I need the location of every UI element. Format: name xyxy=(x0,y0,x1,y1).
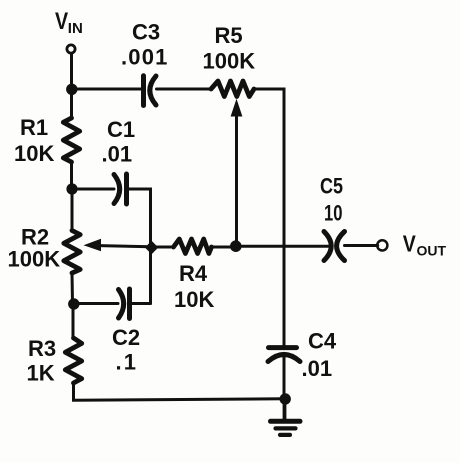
svg-text:10: 10 xyxy=(324,201,343,226)
resistor R5 xyxy=(211,81,254,97)
capacitor C1 xyxy=(114,174,127,204)
svg-text:10K: 10K xyxy=(174,287,214,312)
wire VIN vertical to R1 xyxy=(70,54,73,119)
wire junction to R4 xyxy=(151,246,174,249)
arrowhead R2 wiper xyxy=(84,239,102,251)
resistor R2 xyxy=(64,231,80,274)
wire R5 wiper vertical xyxy=(235,112,238,247)
capacitor C2 xyxy=(119,289,130,319)
svg-text:.1: .1 xyxy=(116,350,139,375)
wire R2 bottom lead xyxy=(71,273,75,304)
wire C4 bottom to ground junction xyxy=(283,355,286,398)
svg-text:OUT: OUT xyxy=(417,243,447,259)
capacitor C5 xyxy=(324,232,345,261)
svg-text:.001: .001 xyxy=(121,45,169,70)
svg-text:.01: .01 xyxy=(302,356,333,381)
wire R2 wiper arrow line xyxy=(99,246,151,247)
wire junction to C5 xyxy=(236,245,329,248)
wire junction to C1 xyxy=(72,188,115,191)
wire R2 top lead xyxy=(71,189,74,231)
wire R3 top lead xyxy=(72,304,75,338)
svg-text:R1: R1 xyxy=(20,115,48,140)
node junction wiper / C1 / C2 / R4 xyxy=(145,241,158,254)
capacitor C3 xyxy=(144,76,157,106)
wire C2 right to corner up xyxy=(130,302,151,305)
node junction R2 / C2 / R3 xyxy=(68,298,79,309)
wire R1 bottom to junction xyxy=(70,162,73,189)
terminal VIN xyxy=(67,45,75,53)
svg-text:IN: IN xyxy=(68,20,83,37)
svg-text:R3: R3 xyxy=(28,336,56,361)
resistor R3 xyxy=(65,338,81,383)
wire R3 bottom and ground rail xyxy=(74,383,285,400)
resistor R1 xyxy=(63,118,79,162)
capacitor C4 xyxy=(268,348,300,362)
svg-text:V: V xyxy=(403,231,417,257)
wire R5 right end, corner down to C4 xyxy=(254,89,284,346)
wire C1 right, corner down to C2 xyxy=(127,189,151,304)
wire C3 to R5 xyxy=(157,88,212,91)
node junction R1 / C1 / R2 xyxy=(66,183,77,194)
resistor R4 xyxy=(174,239,212,254)
svg-text:C5: C5 xyxy=(320,174,343,199)
terminal VOUT xyxy=(377,240,387,250)
node ground junction xyxy=(280,393,291,404)
wire R4 to junction xyxy=(212,246,236,249)
svg-text:10K: 10K xyxy=(14,141,54,166)
svg-text:V: V xyxy=(55,7,68,34)
svg-text:C3: C3 xyxy=(132,20,160,45)
svg-text:100K: 100K xyxy=(8,247,61,272)
wire junction to C2 xyxy=(73,302,118,305)
wire top horizontal to C3 xyxy=(72,88,143,91)
svg-text:C2: C2 xyxy=(112,325,140,350)
svg-text:1K: 1K xyxy=(27,361,55,386)
wire C5 to VOUT xyxy=(345,244,378,247)
arrowhead R5 wiper xyxy=(231,99,243,117)
svg-text:.01: .01 xyxy=(102,142,133,167)
svg-text:R5: R5 xyxy=(215,23,243,48)
svg-text:C1: C1 xyxy=(107,117,135,142)
node junction R4 / R5 wiper / C5 xyxy=(230,240,242,252)
svg-text:R4: R4 xyxy=(179,261,208,286)
svg-text:C4: C4 xyxy=(308,329,337,354)
node junction VIN / C3 / R1 xyxy=(66,84,77,95)
svg-text:100K: 100K xyxy=(203,49,256,74)
ground xyxy=(271,399,301,435)
